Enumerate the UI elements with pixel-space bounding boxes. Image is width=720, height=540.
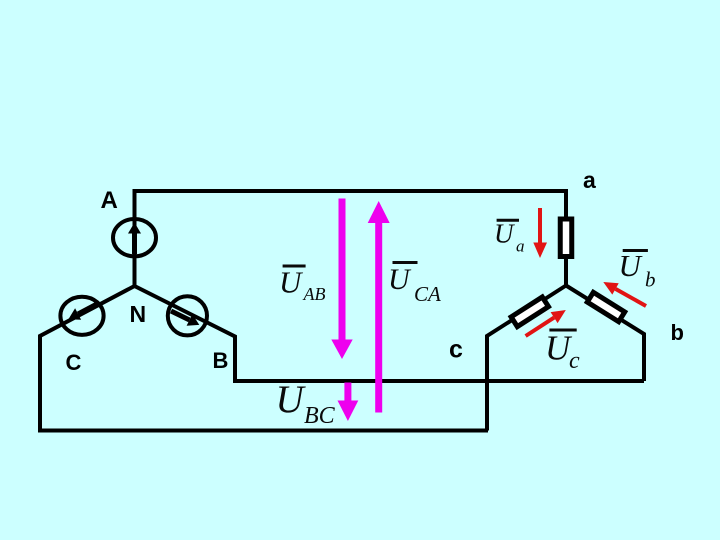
svg-text:U: U (279, 265, 304, 300)
wire B leg and middle line B-b (135, 286, 645, 381)
label U_AB (279, 265, 326, 305)
wire A-a top line (135, 191, 567, 286)
arrow U_CA magenta (368, 201, 390, 413)
arrow U_c red (526, 310, 566, 336)
label U_c (545, 329, 580, 375)
svg-text:AB: AB (303, 284, 326, 304)
svg-text:U: U (494, 219, 515, 249)
label U_BC (276, 378, 336, 429)
resistor c (511, 297, 548, 327)
label U_a (494, 219, 525, 256)
arrow U_b red (603, 282, 646, 306)
arrow U_a red (533, 208, 547, 258)
resistor b (587, 292, 624, 321)
label U_CA (388, 263, 441, 307)
wire load c diagonal (487, 286, 566, 431)
svg-text:CA: CA (414, 282, 441, 306)
svg-text:c: c (449, 336, 463, 364)
svg-text:N: N (130, 301, 147, 327)
svg-text:U: U (388, 263, 412, 296)
arrow U_AB magenta (331, 199, 352, 360)
svg-text:U: U (619, 248, 644, 283)
arrow U_BC magenta (338, 383, 359, 422)
wire C leg and bottom line C-c (40, 286, 488, 431)
svg-text:A: A (101, 187, 118, 214)
svg-text:C: C (66, 350, 82, 375)
svg-text:b: b (671, 320, 684, 345)
svg-text:U: U (276, 378, 307, 421)
coil B (168, 296, 207, 335)
svg-text:a: a (516, 237, 525, 256)
coil A (113, 219, 156, 256)
svg-text:b: b (645, 268, 656, 292)
svg-text:BC: BC (304, 403, 336, 429)
coil C (60, 297, 103, 335)
svg-text:B: B (213, 348, 229, 373)
wire load b diagonal (566, 286, 644, 382)
svg-text:a: a (583, 167, 596, 193)
resistor a (560, 219, 572, 257)
label U_b (619, 248, 656, 292)
wire load a vertical (564, 218, 568, 286)
svg-text:c: c (569, 348, 580, 374)
